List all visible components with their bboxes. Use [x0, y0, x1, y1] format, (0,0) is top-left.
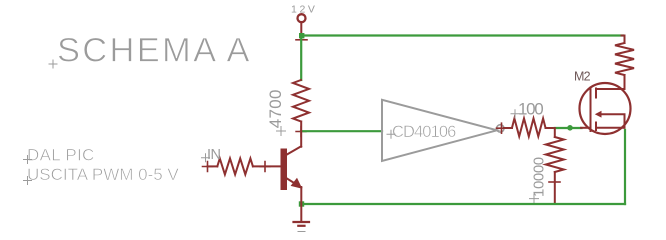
- inverter output bubble: [497, 125, 504, 132]
- wire from rail to R 4700: [300, 36, 302, 81]
- drain resistor (no label): [615, 36, 634, 76]
- transistor Q1 base bar: [281, 149, 288, 191]
- svg-text:DAL PIC: DAL PIC: [27, 146, 95, 165]
- MOSFET bulk arrow line: [600, 114, 625, 128]
- text IN: [202, 147, 221, 163]
- transistor M2 MOSFET circle: [580, 83, 631, 134]
- svg-text:10000: 10000: [530, 157, 547, 197]
- junction dot top: [299, 33, 304, 38]
- MOSFET drain line: [596, 75, 625, 89]
- pin cross at inverter output: [497, 123, 507, 133]
- wire bottom rail: [302, 203, 626, 205]
- resistor R 4700: [293, 80, 309, 122]
- svg-text:CD40106: CD40106: [392, 123, 456, 141]
- wire input net to inverter: [301, 130, 382, 132]
- MOSFET gate lead: [581, 127, 591, 129]
- title text SCHEMA A: [49, 32, 252, 70]
- supply pin wire: [300, 22, 302, 36]
- wire MOSFET source down: [624, 130, 626, 204]
- label 100: [511, 100, 543, 119]
- svg-text:12V: 12V: [291, 4, 317, 16]
- transistor Q1 collector: [287, 122, 302, 155]
- svg-text:100: 100: [518, 100, 543, 119]
- MOSFET source contact tick: [595, 123, 597, 131]
- pin cross at supply net: [296, 39, 307, 41]
- supply 12V circle symbol: [298, 14, 306, 22]
- junction dot emitter: [299, 201, 304, 206]
- pin cross at R4700 bottom: [296, 127, 306, 137]
- transistor Q1 emitter: [287, 178, 302, 222]
- junction dot gate: [567, 125, 573, 131]
- wire top rail: [302, 34, 624, 36]
- svg-text:M2: M2: [574, 70, 591, 84]
- MOSFET source line: [596, 127, 625, 129]
- MOSFET drain contact tick: [595, 89, 597, 98]
- text DAL PIC: [24, 146, 95, 165]
- label CD40106: [387, 123, 456, 141]
- MOSFET gate bar: [590, 88, 592, 132]
- MOSFET bulk arrowhead: [595, 111, 602, 118]
- resistor 10000: [546, 128, 564, 204]
- label 4700: [266, 89, 286, 135]
- wire gate net: [555, 127, 582, 129]
- ground: [294, 222, 310, 232]
- resistor 100: [504, 118, 555, 136]
- svg-text:IN: IN: [207, 147, 221, 163]
- svg-text:4700: 4700: [266, 89, 285, 128]
- text USCITA PWM 0-5 V: [24, 165, 180, 185]
- label 10000: [530, 157, 548, 203]
- op-amp U1 inverter CD40106 triangle: [382, 100, 497, 161]
- svg-text:USCITA PWM 0-5 V: USCITA PWM 0-5 V: [27, 165, 179, 184]
- svg-text:SCHEMA A: SCHEMA A: [57, 32, 252, 70]
- transistor Q1 emitter arrowhead: [291, 178, 303, 189]
- resistor IN (base resistor): [203, 158, 281, 174]
